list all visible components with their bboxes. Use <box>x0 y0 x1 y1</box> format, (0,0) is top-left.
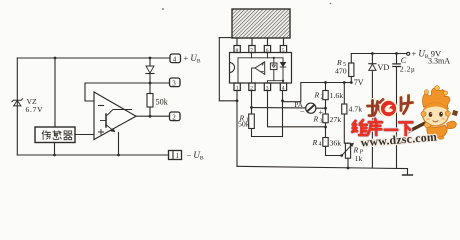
wire top rail to terminal 4 <box>17 57 169 59</box>
svg-text:4.7k: 4.7k <box>349 105 363 114</box>
svg-text:50k: 50k <box>238 120 250 129</box>
svg-text:50k: 50k <box>156 98 169 107</box>
svg-text:4: 4 <box>319 142 322 148</box>
resistor R3 <box>323 114 328 123</box>
wire bottom rail to terminal 1 <box>17 154 168 156</box>
node junction RP/ground rail <box>347 167 350 170</box>
wire R3 bottom to node <box>325 123 327 127</box>
ground rail <box>237 166 408 168</box>
mascot crown dots <box>424 90 428 94</box>
node junction R2 top on 7V line <box>324 81 327 84</box>
svg-text:3.3mA: 3.3mA <box>428 57 450 66</box>
stylized 片 <box>401 96 413 114</box>
node junction diode anode at top rail <box>149 57 152 60</box>
IC internal diode <box>280 58 286 83</box>
wire sensor bottom to bottom rail <box>54 143 56 156</box>
capacitor C 2.2u <box>393 54 400 169</box>
supply top rail <box>351 53 406 55</box>
op-amp U1 triangle <box>94 92 136 140</box>
svg-text:1.6k: 1.6k <box>330 91 344 100</box>
wire 50k bottom to output line <box>149 107 151 116</box>
node IC internal diode bottom <box>282 80 284 82</box>
node junction at top rail x=55 <box>54 57 57 60</box>
node junction meter+/R2/R3 <box>324 107 327 110</box>
IC internal wire box bottom to pin 3 <box>268 70 284 83</box>
node junction diode/feedback at (150,83) <box>149 82 152 85</box>
pin 8 <box>234 46 240 54</box>
wire 4.7k bottom to RP <box>344 114 348 143</box>
IC internal op-amp input marks <box>261 63 263 72</box>
watermark dzsc logo group <box>352 86 458 150</box>
svg-text:2: 2 <box>172 113 176 121</box>
resistor 4.7k <box>342 104 347 114</box>
svg-text:C: C <box>401 56 407 65</box>
wire 7V branch from pin4 to R5 bottom <box>283 83 352 102</box>
wire R1 bottom L to pin4 vertical <box>252 129 283 137</box>
wire R3 top <box>325 108 327 114</box>
mascot arm left holding pen <box>424 122 431 128</box>
sensor box 传感器 <box>35 127 75 143</box>
svg-text:VD: VD <box>378 63 390 72</box>
svg-text:+ UB: + UB <box>184 53 201 65</box>
wire pin 3 to R3/R4 junction <box>268 91 326 127</box>
terminal 1 <box>169 151 182 161</box>
svg-text:4: 4 <box>173 55 177 63</box>
svg-text:27k: 27k <box>330 115 342 124</box>
node junction R5 bottom 7V <box>350 81 353 84</box>
svg-text:3: 3 <box>320 118 323 124</box>
IC internal reference box <box>270 58 277 70</box>
node junction emitter/bottom rail <box>117 154 120 157</box>
sensor lead 2 <box>251 38 253 46</box>
diode D1 <box>146 58 154 94</box>
svg-text:−: − <box>300 108 305 117</box>
svg-text:3: 3 <box>172 79 176 87</box>
node junction C top <box>395 52 398 55</box>
mascot feet <box>429 136 435 139</box>
node junction VD top <box>371 52 374 55</box>
op-amp plus sign <box>99 130 104 135</box>
IC internal op-amp output wire to pin 2 <box>252 68 255 83</box>
svg-text:R: R <box>312 138 318 147</box>
mascot chip in hand <box>452 110 458 116</box>
potentiometer RP <box>342 143 354 158</box>
scan speck top right <box>330 3 332 5</box>
pin 1 <box>234 83 240 92</box>
wire R5 bottom to 7V node <box>350 77 352 83</box>
svg-text:470: 470 <box>335 67 347 76</box>
terminal 4 <box>170 54 181 63</box>
terminal circle +UB <box>407 52 410 55</box>
wire pin 1 down to bottom ground rail <box>236 91 238 167</box>
IC internal stub pin7 <box>251 53 253 58</box>
diode VD <box>369 54 376 168</box>
transistor Q1 inside op-amp <box>101 110 132 132</box>
sensor lead 3 <box>267 38 269 46</box>
resistor R1 <box>249 114 255 129</box>
stylized 找 (maroon with cream outline) <box>368 100 384 116</box>
node junction R3/R4/pin3 <box>324 126 327 129</box>
resistor 50k <box>147 94 153 108</box>
wire op-amp output to terminal 2 <box>136 115 169 117</box>
mascot ears <box>421 111 426 116</box>
pin 6 <box>264 46 270 54</box>
op-amp minus sign <box>99 105 104 107</box>
node junction pin2 / meter wire <box>250 106 253 109</box>
svg-text:1: 1 <box>176 152 180 160</box>
mascot mouth <box>433 121 438 122</box>
wire feedback from minus input to terminal 3 line <box>85 83 169 101</box>
wire emitter down to bottom rail <box>118 133 120 156</box>
node junction left drop / pin1 wire <box>236 99 239 102</box>
wire R2 bottom <box>325 100 327 109</box>
wire left vertical rail (left circuit) <box>16 58 18 155</box>
IC U2 body <box>230 53 292 84</box>
wire R2 top <box>325 83 327 91</box>
mascot arm right raised <box>447 121 457 129</box>
wire R5 top / supply rail <box>350 54 352 64</box>
terminal 2 <box>170 112 181 121</box>
zener diode VZ 6.7V <box>12 99 23 106</box>
mascot cheeks <box>426 118 430 120</box>
sensor lead 4 <box>283 38 285 46</box>
wire pin 2 down <box>251 91 253 115</box>
mascot eyes <box>429 112 433 117</box>
pin 5 <box>280 46 286 54</box>
node junction 4.7k top on 7V line <box>343 81 346 84</box>
wire 4.7k top <box>343 83 345 105</box>
svg-text:R: R <box>313 115 319 124</box>
wire meter minus line <box>252 107 306 109</box>
sensor lead 1 <box>236 38 238 46</box>
mascot pen stroke <box>406 121 431 134</box>
pin 4 <box>280 83 286 92</box>
node junction pin4 / 7V branch <box>281 99 284 102</box>
stylized IC ball <box>380 100 397 117</box>
svg-text:R: R <box>314 91 320 100</box>
wire meter plus to R2/R3 node <box>316 107 326 109</box>
thermal sensor hatched block <box>232 9 290 38</box>
resistor R5 <box>349 63 354 77</box>
node junction sensor/bottom rail <box>53 154 56 157</box>
scan speck top middle <box>162 8 164 10</box>
pin 7 <box>249 46 255 54</box>
terminal 3 <box>170 78 181 87</box>
svg-text:www.dzsc.com: www.dzsc.com <box>360 130 437 150</box>
wire hatch lead 1 to left drop <box>219 37 233 39</box>
IC notch <box>230 63 235 73</box>
node junction wiper <box>340 154 343 157</box>
resistor R4 <box>323 138 328 147</box>
wire R4 bottom to RP wiper <box>326 146 342 155</box>
meter PA <box>306 103 316 113</box>
svg-text:2: 2 <box>321 94 324 100</box>
svg-text:2.2μ: 2.2μ <box>400 65 416 74</box>
svg-text:6.7V: 6.7V <box>26 105 44 114</box>
svg-text:36k: 36k <box>330 138 342 147</box>
mascot head <box>423 103 449 126</box>
IC internal op-amp triangle <box>255 62 265 75</box>
mascot crown <box>423 88 451 110</box>
wire sensor output to op-amp + input <box>75 134 94 136</box>
pin 3 <box>264 83 270 92</box>
wire from top rail down to sensor box <box>54 58 56 127</box>
node junction 50k/output <box>149 115 152 118</box>
svg-text:1k: 1k <box>355 154 363 163</box>
wire pin 4 down <box>282 91 284 137</box>
resistor R2 <box>323 91 328 100</box>
label 传感器 (sensor) <box>42 131 72 140</box>
node internal rail/box <box>273 57 275 59</box>
wire RP bottom to ground rail <box>347 158 349 168</box>
ground symbol <box>403 169 413 175</box>
mascot hair fringe <box>424 103 449 111</box>
wire left drop of right circuit <box>219 38 237 101</box>
pin 2 <box>249 83 255 92</box>
IC internal supply rail <box>238 58 283 83</box>
svg-text:− UB: − UB <box>187 150 204 162</box>
IC internal stub pin6 <box>267 53 269 58</box>
svg-text:7V: 7V <box>354 78 364 87</box>
mascot body <box>427 125 447 138</box>
red text 维库一下 <box>352 119 412 136</box>
wire R4 top <box>325 127 327 138</box>
